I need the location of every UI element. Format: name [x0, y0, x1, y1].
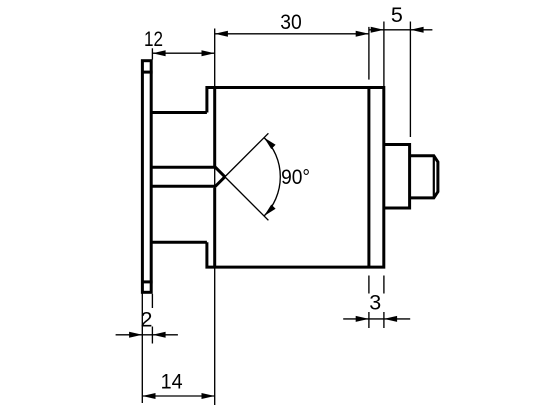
arrowhead dim5 left	[371, 27, 384, 33]
arrowhead dim3 right	[384, 316, 397, 322]
svg-text:14: 14	[161, 370, 183, 394]
arrowhead dim12 left	[152, 50, 165, 56]
body left face line upper	[213, 86, 216, 167]
arrowhead dim3 left	[356, 316, 369, 322]
end spigot chamfer line	[433, 156, 435, 198]
svg-text:2: 2	[141, 307, 153, 331]
extension line x384 bottom seg	[383, 276, 385, 294]
hub top edge	[151, 111, 207, 114]
arrowhead dim14 right	[202, 393, 215, 399]
extension line x384 top	[383, 22, 385, 87]
collar face line	[367, 86, 370, 268]
extension line x410	[409, 22, 411, 138]
extension line x215	[214, 29, 216, 406]
body outline	[207, 88, 384, 268]
hub bottom edge	[151, 241, 207, 244]
arrowhead dim14 left	[142, 393, 155, 399]
flange outline	[142, 61, 151, 293]
angle leader lower	[218, 170, 268, 220]
extension line x369 tick	[368, 312, 370, 328]
vee notch top bar	[151, 167, 225, 177]
extension line x142	[141, 294, 143, 404]
arrowhead dim2 right	[152, 332, 165, 338]
svg-text:90°: 90°	[281, 165, 310, 189]
extension line x369 top	[368, 27, 370, 80]
end spigot outline	[410, 156, 438, 198]
dimension line 12	[152, 52, 214, 54]
svg-text:12: 12	[144, 27, 163, 51]
svg-text:3: 3	[369, 291, 381, 315]
dimension line 30	[215, 33, 369, 35]
arrowhead dim2 left	[129, 332, 142, 338]
flange bottom groove line	[141, 280, 153, 283]
arrowhead dim30 left	[215, 31, 228, 37]
angle dimension arc	[264, 138, 280, 216]
flange top groove line	[141, 71, 153, 74]
svg-text:30: 30	[280, 10, 302, 34]
extension line x152 top	[151, 48, 153, 59]
arrowhead dim30 right	[356, 31, 369, 37]
stub shaft outline	[384, 145, 410, 209]
svg-text:5: 5	[391, 3, 403, 27]
arrowhead arc top	[264, 138, 276, 150]
extension line x369 bottom seg	[368, 276, 370, 294]
dimension line 3	[343, 318, 410, 320]
dimension line 2	[116, 334, 178, 336]
extension line x152 bottom upper seg	[151, 294, 153, 308]
extension line x384 tick	[383, 312, 385, 328]
dimension line 5	[369, 29, 432, 31]
extension line x152 bottom tick	[151, 327, 153, 344]
arrowhead arc bottom	[264, 205, 276, 217]
body left face line lower	[213, 188, 216, 269]
angle leader upper	[218, 133, 268, 183]
vee notch bottom bar	[151, 177, 225, 187]
dimension line 14	[142, 395, 214, 397]
arrowhead dim5 right	[410, 27, 423, 33]
arrowhead dim12 right	[202, 50, 215, 56]
